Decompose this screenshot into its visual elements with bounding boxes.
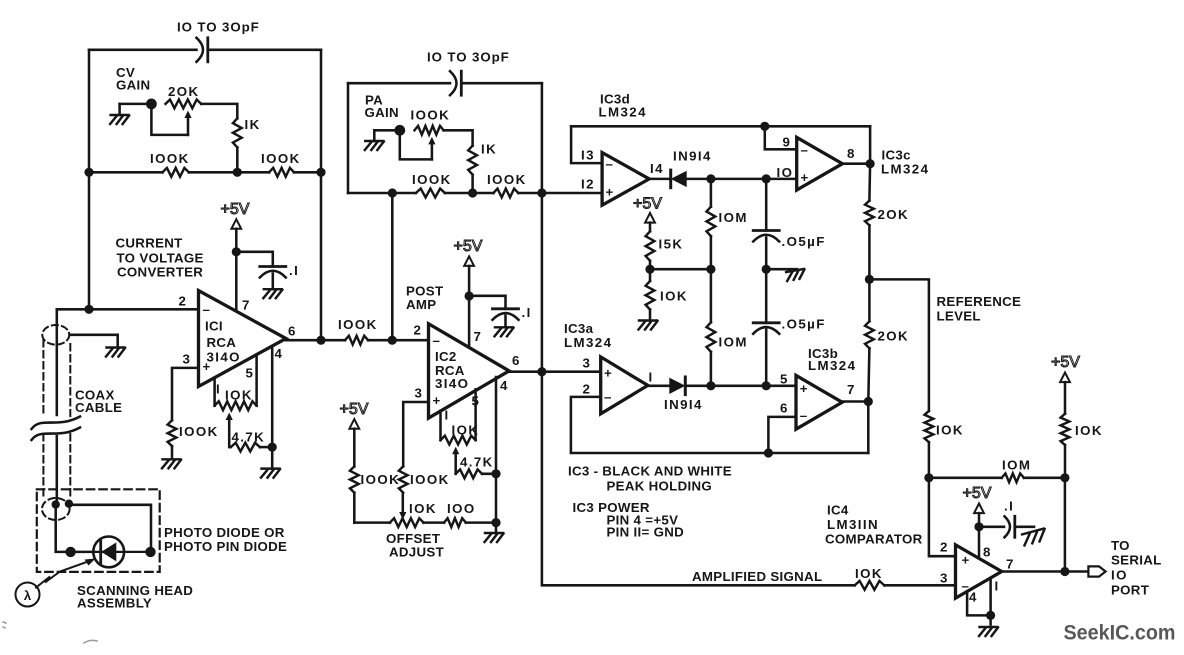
op-amp U: IC3d LM324: [602, 153, 649, 206]
resistor: 10K (reference): [925, 411, 934, 442]
label: pin 8 (IC4): [983, 545, 992, 560]
label: IC3d minus: [606, 157, 615, 172]
wire: offset node to ground: [495, 523, 498, 533]
svg-text:IOK: IOK: [660, 289, 688, 304]
wiper arrow: offset pot (down): [399, 493, 406, 520]
wire: 10M row to output node: [1064, 478, 1067, 572]
label: IC3c LM324: [881, 148, 929, 177]
potentiometer: 10K (offset adjust): [390, 518, 424, 527]
label: IC3 POWER PIN4 PIN11: [573, 500, 685, 540]
watermark: SeekIC.com: [1064, 621, 1176, 645]
svg-text:3I4O: 3I4O: [435, 376, 469, 391]
wiper arrow: CV pot: [184, 111, 191, 135]
wire: PA summing row: [348, 192, 602, 195]
wire: IC1 +5V stem: [235, 229, 238, 252]
label: pin 12: [581, 177, 595, 192]
label: .05uF (lower): [782, 317, 826, 332]
label: 10K (IC2 null): [452, 423, 480, 438]
svg-text:3I4O: 3I4O: [207, 350, 241, 365]
svg-text:5: 5: [246, 366, 255, 381]
svg-text:CONVERTER: CONVERTER: [117, 265, 203, 280]
op-amp U: IC3c LM324: [797, 137, 843, 190]
svg-text:IK: IK: [245, 117, 261, 132]
label: 100K (CV left): [150, 151, 190, 166]
wire: CV loop right vertical: [320, 50, 323, 340]
resistor: 10K (pullup): [1061, 414, 1070, 445]
svg-text:IO TO 3OpF: IO TO 3OpF: [177, 20, 260, 35]
svg-text:IO TO 3OpF: IO TO 3OpF: [427, 50, 510, 65]
wire: offset +5V stem: [353, 429, 356, 467]
svg-text:7: 7: [242, 298, 251, 313]
label: .1 (IC4): [1004, 499, 1014, 514]
wire: IC4 bypass to ground: [1015, 526, 1034, 529]
wire: PA feedback down to IC2 input: [391, 193, 394, 340]
wire: pot left to ground corner: [120, 104, 152, 115]
node: cap mid junction: [762, 265, 771, 274]
node: IC4 output junction: [1060, 567, 1069, 576]
label: IC3 BLACK AND WHITE PEAK HOLDING: [568, 464, 732, 494]
label: pin 5 (IC1): [246, 366, 255, 381]
label: pin 1 (IC4): [995, 579, 1000, 594]
label: CURRENT TO VOLTAGE CONVERTER: [116, 236, 204, 280]
wire: IC2 pin4 stub: [495, 377, 498, 474]
svg-text:–: –: [606, 157, 615, 172]
label: POST AMP: [406, 284, 443, 313]
label: 100K (PA pot): [411, 108, 451, 123]
svg-text:I: I: [649, 370, 654, 385]
svg-text:3: 3: [583, 356, 592, 371]
wire: 10M feedback row: [929, 477, 1065, 480]
label: 100K (CV right): [261, 151, 301, 166]
capacitor C: .05uF (lower): [753, 323, 779, 334]
node: PA row right: [537, 188, 546, 197]
label: 100K (PA left): [412, 172, 452, 187]
label: .1 (IC2): [522, 305, 532, 320]
label: IC1 RCA 3140: [205, 319, 241, 365]
wire: center conductor to anode: [56, 505, 94, 552]
svg-text:9: 9: [783, 135, 792, 150]
coax shield bottom (dashed ellipse): [42, 498, 70, 520]
op-amp U: IC3a LM324: [601, 357, 648, 414]
potentiometer: 20K (CV gain): [166, 100, 202, 109]
svg-text:7: 7: [847, 382, 856, 397]
svg-text:IOK: IOK: [409, 501, 437, 516]
scanning head dashed box: [37, 489, 160, 572]
label: pin 5: [780, 372, 789, 387]
svg-text:I5K: I5K: [659, 237, 684, 252]
label: pin 1 (IC1): [216, 382, 221, 397]
wire: CV pot right to 1K: [201, 104, 237, 118]
label: pin 14: [650, 161, 664, 176]
svg-text:3: 3: [940, 571, 949, 586]
op-amp U: IC3b LM324: [796, 375, 842, 429]
svg-text:λ: λ: [24, 588, 32, 603]
wire: IC1 bypass cap to ground: [272, 274, 275, 290]
svg-text:4: 4: [275, 346, 284, 361]
label: .1 (IC1): [289, 263, 299, 278]
svg-text:AMP: AMP: [406, 297, 436, 312]
label: IC2 plus: [433, 393, 442, 408]
wire: CV summing row: [89, 171, 321, 174]
node: feedback row junction: [764, 448, 773, 457]
wire: IC1 output row: [286, 339, 429, 342]
ground: IC1 pin3: [162, 459, 181, 468]
wire: 10K to ground: [649, 310, 652, 321]
ground: coax shield: [106, 348, 125, 357]
wire: IC1 pin7 stem: [235, 252, 238, 311]
node: IC4 pin1/pin4 junction: [986, 611, 995, 620]
svg-text:ICI: ICI: [205, 319, 223, 334]
svg-text:–: –: [203, 302, 212, 317]
wire: IC4 bypass branch: [979, 526, 1004, 529]
svg-text:IOOK: IOOK: [179, 424, 219, 439]
wire: IC1 bypass branch: [236, 252, 272, 267]
svg-text:2OK: 2OK: [878, 207, 910, 222]
svg-text:SERIAL: SERIAL: [1111, 553, 1162, 568]
wire: PA pot right to 1K: [444, 130, 473, 145]
capacitor C: .1 (IC1 bypass): [260, 267, 286, 278]
resistor: 100K (CV left): [163, 168, 189, 177]
label: COAX CABLE: [75, 388, 122, 416]
wire: 4.7K to pin4 node (IC2): [482, 473, 496, 476]
node: 10M row left: [924, 473, 933, 482]
label: CV GAIN: [116, 65, 150, 93]
label: pin 7 (IC1): [242, 298, 251, 313]
label: 10M (comparator): [1002, 458, 1031, 473]
scan artifact marks: [3, 622, 97, 643]
wire: IC2 pin1 stub: [439, 411, 442, 440]
svg-text:IO: IO: [1111, 568, 1128, 583]
svg-text:4.7K: 4.7K: [460, 455, 494, 470]
power: +5V (divider): [633, 196, 662, 223]
wire: diode row to IC3b pin5: [710, 385, 796, 388]
wire: IC1 pin4 stub: [271, 347, 274, 448]
svg-text:IOK: IOK: [452, 423, 480, 438]
node: IC1 pin4/4.7K junction: [268, 443, 277, 452]
label: pin 3 (IC3a): [583, 356, 592, 371]
svg-text:6: 6: [288, 324, 297, 339]
label: 15K: [659, 237, 684, 252]
svg-text:TO: TO: [1111, 538, 1130, 553]
label: pin 1 (IC3a): [649, 370, 654, 385]
node: IC2 +5V junction: [465, 291, 474, 300]
label: pin 6 (IC1): [288, 324, 297, 339]
power: +5V (IC2): [454, 238, 483, 266]
label: IC3c plus: [801, 170, 810, 185]
wire: IC2 pin4 node down: [495, 474, 498, 523]
lambda leader arrow: [36, 559, 96, 588]
label: 10K (reference): [936, 423, 964, 438]
node: divider tap: [645, 265, 654, 274]
label: pin 7 (IC3b): [847, 382, 856, 397]
diode D: 1N914 (IC3a out, cathode right): [648, 377, 710, 395]
wire: 10M upper to tap: [710, 236, 713, 269]
wire: reference level branch: [869, 279, 929, 411]
label: .05uF (upper): [782, 234, 826, 249]
svg-text:+: +: [606, 185, 615, 200]
wire: IC4 pin8 stem: [978, 527, 981, 559]
svg-text:+5V: +5V: [633, 196, 662, 213]
resistor: 1K (CV): [233, 118, 242, 147]
label: 4.7K (IC1): [232, 430, 266, 445]
wire: IC1 pin3 branch: [172, 368, 199, 420]
resistor: 100K (PA right): [493, 189, 518, 198]
node: pin2 row / CV loop junction: [84, 305, 93, 314]
svg-text:LM3IIN: LM3IIN: [827, 517, 879, 532]
wire: IC2 output row: [509, 370, 601, 373]
label: 100K (offset right): [410, 472, 450, 487]
label: IC3c minus: [801, 143, 810, 158]
wire: 20K lower to IC3b out: [868, 348, 869, 401]
label: 20K (lower): [878, 329, 910, 344]
wire: IC1 pin2 input row: [57, 308, 199, 311]
svg-text:IC3a: IC3a: [564, 321, 594, 336]
svg-text:COMPARATOR: COMPARATOR: [825, 532, 923, 547]
label: 10K (signal): [855, 566, 883, 581]
svg-text:GAIN: GAIN: [116, 78, 150, 93]
ground: divider: [639, 321, 658, 330]
resistor: 100K (IC1 pin3): [168, 420, 177, 446]
ground: offset adjust: [485, 533, 504, 542]
label: IC2 RCA 3140: [435, 349, 469, 391]
svg-text:CURRENT: CURRENT: [116, 236, 183, 251]
svg-text:+5V: +5V: [340, 401, 369, 418]
svg-text:4.7K: 4.7K: [232, 430, 266, 445]
svg-text:+: +: [433, 393, 442, 408]
resistor: 10M (upper): [707, 207, 716, 237]
resistor: 15K: [646, 231, 655, 260]
resistor: 100K (IC1 out to IC2): [345, 336, 368, 345]
svg-text:.O5µF: .O5µF: [782, 234, 826, 249]
wire: 100K to ground (IC1 pin3): [171, 446, 174, 459]
label: pin 3 (IC2): [415, 386, 424, 401]
op-amp U: IC2 RCA 3140: [429, 324, 510, 418]
label: pin 7 (IC2): [474, 329, 483, 344]
lambda source circle: [16, 583, 40, 607]
node: cap/pin10 junction: [762, 174, 771, 183]
wire: coax center conductor (in cable): [56, 324, 59, 505]
wire: top feedback bus (IC3d pin13 to IC3c out): [571, 125, 870, 128]
resistor: 4.7K (IC1): [231, 443, 260, 452]
svg-text:IOK: IOK: [936, 423, 964, 438]
node: IC2 pin2 / PA feedback junction: [388, 336, 397, 345]
svg-text:LM324: LM324: [881, 162, 929, 177]
wire: divider tap to 10M chain: [650, 268, 711, 271]
label: SCANNING HEAD ASSEMBLY: [77, 583, 193, 611]
label: 100K (IC1 pin3): [179, 424, 219, 439]
node: 10M row right: [1060, 473, 1069, 482]
capacitor C: 10 TO 30pF (CV loop): [197, 38, 208, 62]
node: cathode lead: [145, 547, 155, 557]
wire: mid node to ground: [766, 268, 797, 271]
svg-text:IOOK: IOOK: [487, 172, 527, 187]
label: pin 2 (IC2): [414, 323, 423, 338]
capacitor C: .05uF (upper): [753, 231, 779, 242]
svg-text:+5V: +5V: [454, 238, 483, 255]
wire: ref node to 20K lower: [868, 279, 871, 321]
photodiode D: junction: [94, 541, 152, 563]
label: IC3a plus: [604, 366, 613, 381]
svg-text:2OK: 2OK: [168, 84, 200, 99]
wire: top feedback loop with 10-30pF cap (CV): [89, 49, 321, 52]
wire: diode to pin10 node: [711, 178, 797, 181]
node: top bus / pin9 tap: [760, 122, 769, 131]
wire: IC3d pin13 feedback: [571, 126, 602, 163]
svg-text:2: 2: [414, 323, 423, 338]
wire: amplified signal drop: [542, 372, 855, 586]
wire: 15K to node: [649, 261, 652, 269]
node: shield bottom tap: [65, 500, 73, 508]
svg-text:4: 4: [969, 590, 978, 605]
label: 100K (PA right): [487, 172, 527, 187]
node: 10M top junction: [706, 174, 715, 183]
label: IC3a LM324: [564, 321, 612, 350]
wire: 1K bottom to PA row: [471, 175, 474, 193]
potentiometer: 100K (PA gain): [415, 126, 444, 135]
resistor: 100K (CV right): [269, 168, 294, 177]
wire: CV pot wiper loop: [151, 104, 188, 135]
label: IC4 plus: [962, 553, 971, 568]
coax cable dashed outline: [43, 340, 70, 500]
svg-text:7: 7: [474, 329, 483, 344]
wire: IC4 pin2 branch: [929, 478, 956, 556]
wire: IC1 pin1 stub: [213, 378, 216, 406]
label: pin 4 (IC4): [969, 590, 978, 605]
wire: IC1 pin5 stub: [255, 355, 258, 406]
svg-text:PORT: PORT: [1111, 583, 1149, 598]
svg-text:+: +: [800, 381, 809, 396]
svg-text:2: 2: [940, 540, 949, 555]
resistor: 10M (lower): [707, 322, 716, 352]
svg-text:.O5µF: .O5µF: [782, 317, 826, 332]
capacitor C: .1 (IC4 bypass): [1005, 516, 1015, 537]
wire: offset row right: [466, 521, 496, 524]
svg-text:7: 7: [1006, 557, 1015, 572]
svg-text:PHOTO PIN DIODE: PHOTO PIN DIODE: [164, 539, 287, 554]
label: 10M (lower): [719, 335, 748, 350]
label: 4.7K (IC2): [460, 455, 494, 470]
svg-text:IK: IK: [481, 142, 497, 157]
label: pin 13: [581, 148, 595, 163]
svg-text:IN9I4: IN9I4: [664, 397, 703, 412]
svg-text:–: –: [604, 390, 613, 405]
label: pin 6: [780, 401, 789, 416]
ground: PA pot: [365, 141, 384, 150]
svg-text:2: 2: [179, 294, 188, 309]
node: IC4 +5V junction: [974, 522, 983, 531]
wire: PA pot left to ground: [374, 130, 400, 141]
resistor: 100K (PA left): [416, 189, 445, 198]
ground: IC4 bypass: [1022, 528, 1048, 545]
node: PA row left (to IC2 in): [388, 188, 397, 197]
svg-text:.I: .I: [289, 263, 299, 278]
svg-text:GAIN: GAIN: [365, 105, 399, 120]
svg-text:8: 8: [983, 545, 992, 560]
svg-text:LM324: LM324: [808, 358, 856, 373]
label: pin 9: [783, 135, 792, 150]
wire: cap chain upper stem: [765, 179, 768, 231]
svg-text:SeekIC.com: SeekIC.com: [1064, 621, 1176, 645]
ground: IC1 pin4: [261, 469, 280, 478]
label: pin 3 (IC1): [183, 352, 192, 367]
svg-text:IC2: IC2: [435, 349, 457, 364]
wire: 4.7K to pin4 node: [260, 446, 272, 449]
node: IC2 pin4/4.7K junction: [491, 469, 500, 478]
node: CV row middle (1K): [233, 168, 242, 177]
wire: IC2 bypass cap to ground: [504, 316, 507, 328]
label: IC4 LM311N COMPARATOR: [825, 503, 923, 547]
svg-text:IOK: IOK: [1075, 423, 1103, 438]
wire: divider stem: [649, 223, 652, 232]
svg-text:IOM: IOM: [719, 210, 748, 225]
potentiometer: 10K (IC2 offset null): [441, 436, 476, 445]
svg-text:IOM: IOM: [1002, 458, 1031, 473]
svg-text:PHOTO DIODE OR: PHOTO DIODE OR: [164, 525, 285, 540]
wire: pullup stem: [1064, 382, 1067, 414]
wire: cap upper to mid node: [765, 238, 768, 270]
resistor: 100K (offset right): [399, 466, 408, 492]
svg-text:REFERENCE: REFERENCE: [937, 294, 1022, 309]
label: IC3d LM324: [599, 92, 647, 120]
wire: mid node to lower cap: [765, 269, 768, 323]
label: pin 8: [847, 146, 856, 161]
ground: IC4: [979, 627, 998, 636]
svg-text:+: +: [801, 170, 810, 185]
wire: cap lower to diode row: [765, 330, 768, 386]
node: IC2 output junction: [537, 367, 546, 376]
label: pin 3 (IC4): [940, 571, 949, 586]
svg-text:LM324: LM324: [599, 105, 647, 120]
svg-text:IOOK: IOOK: [411, 108, 451, 123]
svg-text:I4: I4: [650, 161, 664, 176]
svg-text:I2: I2: [581, 177, 595, 192]
svg-text:6: 6: [512, 353, 521, 368]
resistor: 10K (amplified signal): [855, 581, 885, 590]
label: 1K (PA): [481, 142, 497, 157]
svg-text:I: I: [216, 382, 221, 397]
coax shield top (dashed ellipse): [42, 325, 69, 345]
photodiode D: circle: [93, 537, 124, 568]
label: 10K (pullup): [1075, 423, 1103, 438]
wire: offset left down to row: [354, 493, 390, 523]
svg-text:2OK: 2OK: [878, 329, 910, 344]
wire: PA loop right vertical: [541, 83, 544, 372]
label: 10K (divider): [660, 289, 688, 304]
resistor: 10K (divider): [646, 281, 655, 310]
resistor: 10M (comparator): [1002, 473, 1024, 482]
svg-text:IOOK: IOOK: [410, 472, 450, 487]
svg-text:IOO: IOO: [447, 501, 476, 516]
label: TO SERIAL IO PORT: [1111, 538, 1162, 598]
label: IC3b minus: [800, 408, 809, 423]
wire: PA loop left vertical: [347, 83, 350, 193]
wire: 1K bottom to row: [236, 147, 239, 172]
node: diode row / 10M junction: [706, 381, 715, 390]
label: 100K (interstage): [338, 317, 378, 332]
wire: coax center conductor top: [56, 309, 59, 324]
node: IC3c output junction: [866, 159, 875, 168]
wire: IC2 +5V stem: [468, 266, 471, 296]
svg-text:IOOK: IOOK: [361, 472, 401, 487]
label: IC3d plus: [606, 185, 615, 200]
cable break squiggle: [32, 417, 81, 441]
ground: IC1 bypass: [263, 289, 282, 298]
label: 10K (offset): [409, 501, 437, 516]
node: PA row middle (1K): [468, 188, 477, 197]
label: 100 (offset): [447, 501, 476, 516]
wire: signal 10K to pin3: [884, 584, 955, 587]
label: IC2 minus: [433, 333, 442, 348]
